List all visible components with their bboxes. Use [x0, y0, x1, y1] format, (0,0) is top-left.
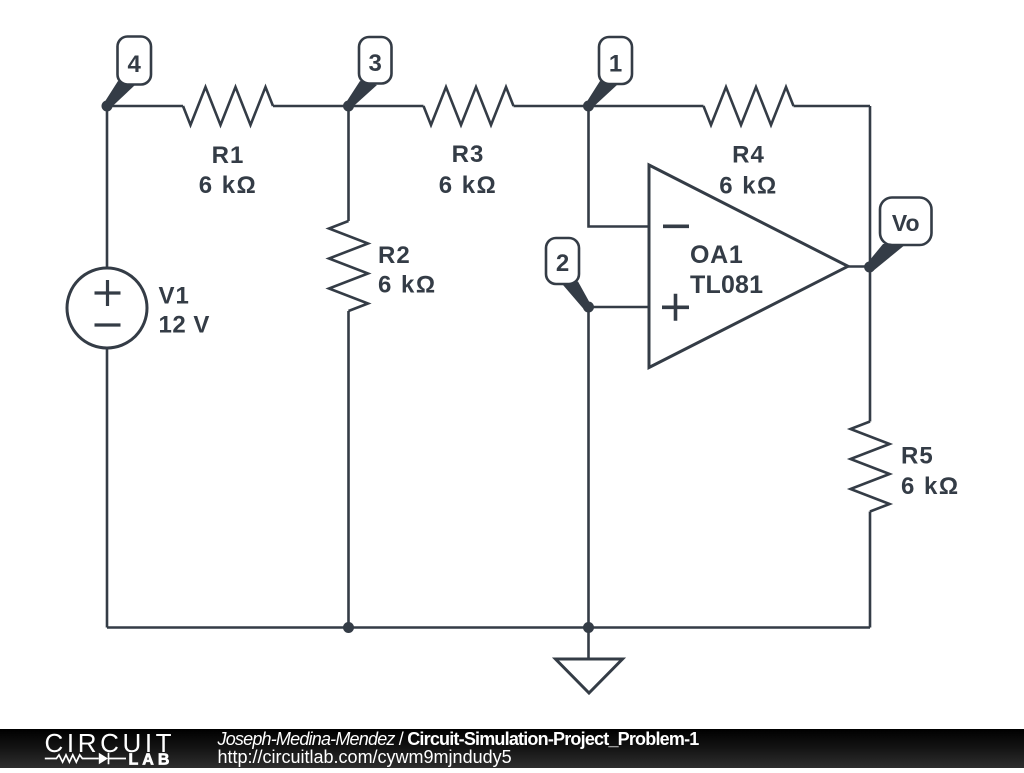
wire R5 to bottom rail: [869, 512, 872, 628]
svg-text:R2: R2: [378, 242, 411, 269]
resistor R1: [183, 87, 273, 125]
wire R1 to node 3: [273, 105, 349, 108]
node flag 3: [346, 81, 377, 108]
resistor R3: [424, 87, 514, 125]
wire op-amp output: [848, 265, 870, 268]
wire R2 to bottom rail: [347, 311, 350, 628]
svg-text:http://circuitlab.com/cywm9mjn: http://circuitlab.com/cywm9mjndudy5: [218, 747, 512, 767]
wire R3 to node 1: [514, 105, 589, 108]
wire right rail top corner through node Vo to R5: [869, 106, 872, 422]
svg-text:6 kΩ: 6 kΩ: [199, 172, 258, 199]
wire V1 minus terminal to bottom rail: [106, 348, 109, 628]
wire node 3 to R3: [349, 105, 424, 108]
svg-text:6 kΩ: 6 kΩ: [378, 272, 437, 299]
svg-text:OA1: OA1: [690, 241, 744, 269]
wire node 4 to V1 plus terminal: [106, 106, 109, 268]
svg-text:6 kΩ: 6 kΩ: [439, 172, 498, 199]
svg-text:R3: R3: [452, 141, 485, 168]
svg-text:V1: V1: [159, 283, 190, 310]
svg-text:4: 4: [128, 51, 142, 78]
junction node 3 dot: [343, 101, 354, 112]
node flag 4: [104, 81, 135, 109]
node flag Vo: [867, 244, 907, 271]
resistor R4: [704, 87, 794, 125]
svg-text:1: 1: [609, 51, 622, 78]
wire node2 to op-amp non-inverting input: [589, 306, 650, 309]
svg-text:LAB: LAB: [129, 752, 174, 769]
svg-text:R4: R4: [732, 142, 765, 169]
junction bottom rail ground dot: [583, 622, 594, 633]
op-amp inverting input minus sign: [663, 225, 689, 229]
junction node 1 dot: [583, 101, 594, 112]
resistor R2: [329, 221, 368, 311]
svg-text:6 kΩ: 6 kΩ: [719, 173, 778, 200]
svg-text:R5: R5: [901, 443, 934, 470]
svg-text:TL081: TL081: [690, 271, 763, 299]
node flag 1: [586, 81, 617, 109]
svg-text:2: 2: [556, 250, 569, 277]
node flag 2: [560, 282, 591, 311]
op-amp OA1 triangle: [649, 165, 848, 368]
junction bottom rail R2 dot: [343, 622, 354, 633]
svg-text:Vo: Vo: [892, 210, 920, 236]
wire node 1 to R4: [589, 105, 704, 108]
junction node 2 dot: [583, 302, 594, 313]
V1 minus sign: [95, 323, 121, 326]
wire bottom rail: [107, 626, 870, 629]
wire R4 to top right corner: [794, 105, 871, 108]
wire node1 to op-amp inverting input: [589, 106, 650, 227]
wire node2 down to bottom rail: [587, 307, 590, 628]
svg-text:3: 3: [369, 50, 382, 77]
wire node 3 to R2: [347, 106, 350, 221]
voltage source V1 circle: [67, 268, 147, 348]
resistor R5: [851, 422, 890, 512]
op-amp non-inverting input plus sign: [662, 294, 689, 321]
logo squiggle resistor: [45, 755, 99, 762]
junction node 4 dot: [102, 101, 113, 112]
V1 plus sign: [95, 280, 121, 306]
svg-text:Joseph-Medina-Mendez / Circuit: Joseph-Medina-Mendez / Circuit-Simulatio…: [217, 729, 700, 749]
svg-text:6 kΩ: 6 kΩ: [901, 473, 960, 500]
wire node 4 to R1: [107, 105, 183, 108]
junction Vo dot: [864, 262, 875, 273]
footer bar: [0, 729, 1024, 768]
logo diode: [99, 753, 108, 765]
ground: [587, 628, 590, 660]
svg-text:R1: R1: [212, 142, 245, 169]
svg-text:12 V: 12 V: [159, 312, 210, 339]
